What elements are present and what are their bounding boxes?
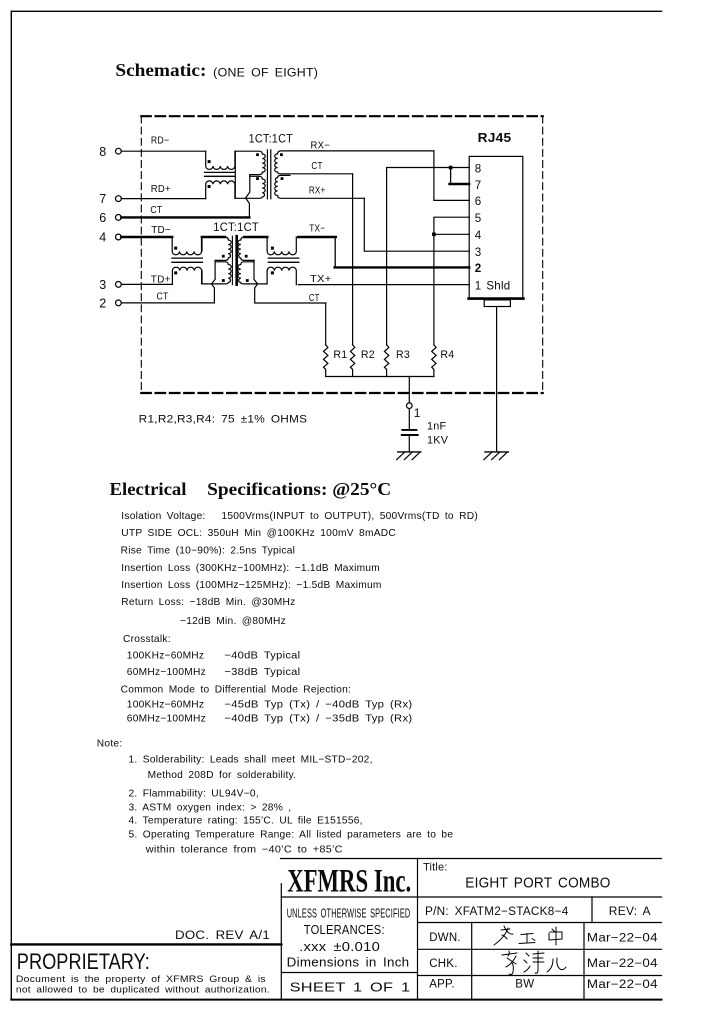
svg-text:7: 7	[99, 192, 106, 206]
transformer T1 secondary bottom section	[275, 175, 365, 198]
svg-text:Mar−22−04: Mar−22−04	[587, 933, 658, 945]
svg-text:Dimensions in Inch: Dimensions in Inch	[287, 955, 410, 969]
svg-text:CT: CT	[311, 161, 322, 172]
transformer T2 primary centre-tap to CT	[212, 260, 216, 302]
svg-text:Specifications: @25°C: Specifications: @25°C	[207, 479, 391, 499]
svg-text:R2: R2	[361, 349, 375, 361]
svg-text:Common Mode to Differential Mo: Common Mode to Differential Mode Rejecti…	[121, 685, 352, 696]
transformer T1 secondary top section	[275, 151, 434, 174]
wire capacitor to ground	[408, 436, 410, 452]
wire RJ45 pin 8 net to R3	[387, 168, 470, 345]
svg-text:1: 1	[475, 280, 482, 293]
svg-text:2: 2	[99, 297, 106, 311]
wire TX CT down to R1	[325, 303, 327, 345]
svg-text:UNLESS OTHERWISE SPECIFIED: UNLESS OTHERWISE SPECIFIED	[287, 907, 411, 921]
svg-text:BW: BW	[515, 979, 534, 991]
wire node 1 to capacitor C1	[408, 409, 410, 430]
transformer T2 label 1CT:1CT	[213, 220, 259, 234]
svg-text:2. Flammability: UL94V−0,: 2. Flammability: UL94V−0,	[129, 789, 259, 800]
svg-text:4. Temperature rating: 155’C.: 4. Temperature rating: 155’C. UL file E1…	[129, 816, 363, 827]
common-mode choke L2 top winding	[172, 237, 201, 255]
common-mode choke L3 core	[268, 258, 299, 262]
wire RX CT down to R2	[352, 174, 354, 345]
label RX-	[311, 141, 331, 152]
wire RJ45 pin 4 stub	[434, 233, 469, 235]
svg-text:6: 6	[99, 211, 106, 225]
common-mode choke L1 top winding	[206, 151, 235, 169]
svg-text:TX+: TX+	[310, 274, 332, 285]
wire TD- from pin 4	[121, 225, 172, 237]
pin 8 terminal	[99, 145, 121, 159]
svg-text:8: 8	[99, 145, 106, 159]
svg-text:XFMRS Inc.: XFMRS Inc.	[287, 863, 411, 899]
junction pins 7-8	[449, 166, 453, 170]
svg-text:REV: A: REV: A	[609, 906, 651, 918]
title block text	[16, 862, 658, 995]
resistor R4	[432, 345, 455, 377]
dashed enclosure box	[141, 116, 542, 393]
svg-text:RX+: RX+	[309, 186, 326, 197]
svg-text:Shld: Shld	[486, 280, 510, 293]
svg-text:4: 4	[475, 229, 482, 242]
svg-text:APP.: APP.	[429, 979, 455, 991]
wire rail to node 1	[408, 377, 410, 403]
node 1 terminal	[407, 403, 421, 420]
wire TD+ from pin 3	[121, 274, 172, 285]
electrical specifications and notes text	[97, 479, 478, 856]
wire RX+ to RJ45 pin 3	[364, 198, 469, 251]
svg-text:RD+: RD+	[151, 184, 171, 195]
svg-text:RD−: RD−	[151, 135, 169, 146]
svg-text:3: 3	[99, 278, 106, 292]
svg-text:60MHz−100MHz: 60MHz−100MHz	[127, 714, 206, 725]
svg-text:1. Solderability: Leads shall: 1. Solderability: Leads shall meet MIL−S…	[129, 755, 373, 766]
common-mode choke L2 bottom winding	[172, 267, 201, 284]
svg-text:P/N: XFATM2−STACK8−4: P/N: XFATM2−STACK8−4	[425, 906, 569, 918]
svg-text:R1: R1	[333, 349, 347, 361]
signature CHK	[502, 951, 566, 975]
pin 4 terminal	[99, 231, 121, 245]
svg-text:DWN.: DWN.	[429, 932, 461, 944]
svg-text:60MHz−100MHz: 60MHz−100MHz	[127, 667, 206, 678]
svg-text:−38dB Typical: −38dB Typical	[224, 667, 300, 678]
svg-text:−45dB Typ (Tx) / −40dB Typ (Rx: −45dB Typ (Tx) / −40dB Typ (Rx)	[224, 700, 412, 711]
transformer T2 secondary bottom section	[238, 262, 267, 284]
common-mode choke L2 core	[172, 258, 203, 262]
svg-text:PROPRIETARY:: PROPRIETARY:	[17, 949, 150, 974]
svg-text:Insertion Loss (300KHz−100MHz): Insertion Loss (300KHz−100MHz): −1.1dB M…	[121, 563, 380, 574]
transformer T1 primary centre-tap to CT	[246, 175, 250, 217]
svg-text:Isolation Voltage: 1500Vrms(: Isolation Voltage: 1500Vrms(INPUT to OUT…	[121, 511, 478, 522]
transformer T2 secondary right verticals	[266, 237, 268, 284]
ground (shield)	[484, 452, 508, 460]
common-mode choke L1 bottom winding	[206, 181, 235, 199]
resistor R2	[350, 345, 375, 377]
svg-text:TD+: TD+	[151, 274, 171, 285]
capacitor C1	[402, 421, 449, 447]
transformer T1 primary top section	[235, 151, 265, 174]
svg-text:CT: CT	[309, 293, 320, 304]
junction pin 4 net	[432, 233, 436, 237]
common-mode choke L1 core	[205, 172, 235, 176]
svg-text:CHK.: CHK.	[429, 958, 457, 970]
transformer T2 primary bottom section	[202, 262, 231, 284]
svg-text:TD−: TD−	[151, 225, 171, 236]
svg-text:−40dB Typ (Tx) / −35dB Typ (Rx: −40dB Typ (Tx) / −35dB Typ (Rx)	[224, 714, 412, 725]
transformer T1 primary bottom section	[235, 176, 265, 198]
svg-text:1: 1	[414, 406, 421, 420]
page border top	[11, 10, 661, 12]
transformer T1 primary vertical link	[234, 151, 236, 198]
svg-text:R4: R4	[440, 349, 454, 361]
svg-text:TX−: TX−	[309, 223, 325, 234]
wire resistor bottom rail	[326, 376, 434, 378]
wire T2 to choke L3	[244, 236, 267, 238]
resistor R3	[384, 345, 410, 377]
svg-text:Mar−22−04: Mar−22−04	[587, 979, 658, 991]
svg-text:TOLERANCES:: TOLERANCES:	[304, 923, 385, 937]
svg-text:4: 4	[99, 231, 106, 245]
RJ45 shield tab	[484, 300, 510, 307]
svg-text:Crosstalk:: Crosstalk:	[123, 634, 171, 645]
svg-text:3. ASTM oxygen index: > 28% ,: 3. ASTM oxygen index: > 28% ,	[129, 803, 292, 814]
pin 6 terminal	[99, 211, 121, 225]
wire RD- from pin 8	[121, 135, 205, 151]
svg-text:Electrical: Electrical	[110, 479, 187, 499]
wire RX- to RJ45 pin 6	[434, 151, 469, 201]
transformer T2 primary left verticals	[201, 237, 203, 284]
svg-text:Document is the property of XF: Document is the property of XFMRS Group …	[16, 973, 266, 984]
signature DWN	[494, 926, 562, 945]
svg-text:1nF: 1nF	[427, 421, 447, 433]
wire CT from pin 2	[121, 292, 214, 303]
RJ45 Shld pin label	[486, 280, 510, 293]
svg-text:Rise Time (10−90%): 2.5ns Typi: Rise Time (10−90%): 2.5ns Typical	[121, 546, 296, 557]
svg-text:6: 6	[475, 195, 482, 208]
svg-text:not allowed to be duplicated w: not allowed to be duplicated without aut…	[16, 983, 270, 994]
wire CT from pin 6	[121, 205, 249, 217]
svg-text:Title:: Title:	[423, 862, 448, 874]
transformer T1 label 1CT:1CT	[249, 131, 293, 145]
wire choke L2 to T2 primary	[202, 236, 225, 238]
ground (capacitor)	[397, 452, 421, 460]
svg-text:100KHz−60MHz: 100KHz−60MHz	[127, 651, 204, 662]
svg-text:DOC. REV A/1: DOC. REV A/1	[175, 928, 270, 942]
svg-text:RJ45: RJ45	[478, 130, 512, 145]
svg-text:Method 208D for solderability.: Method 208D for solderability.	[148, 770, 297, 781]
transformer T2 primary top section	[215, 237, 231, 260]
wire TX+ to RJ45 pin 1	[298, 274, 469, 285]
label RX+	[309, 186, 326, 197]
svg-text:Mar−22−04: Mar−22−04	[587, 958, 658, 970]
svg-text:R1,R2,R3,R4: 75 ±1% OHMS: R1,R2,R3,R4: 75 ±1% OHMS	[139, 414, 308, 426]
svg-text:5: 5	[475, 212, 482, 225]
svg-text:1CT:1CT: 1CT:1CT	[249, 131, 293, 145]
svg-text:SHEET 1 OF 1: SHEET 1 OF 1	[290, 980, 411, 995]
svg-text:RX−: RX−	[311, 141, 331, 152]
resistor value note	[139, 414, 308, 426]
transformer T2 secondary centre-tap to CT	[254, 260, 326, 304]
svg-text:3: 3	[475, 246, 482, 259]
svg-text:1KV: 1KV	[427, 434, 449, 446]
pin 2 terminal	[99, 297, 121, 311]
pin 3 terminal	[99, 278, 121, 292]
transformer T1 core	[267, 150, 270, 199]
svg-text:R3: R3	[396, 349, 410, 361]
RJ45 connector J1	[469, 130, 524, 299]
schematic heading	[115, 60, 318, 80]
svg-text:Return Loss: −18dB Min. @30MHz: Return Loss: −18dB Min. @30MHz	[121, 597, 295, 608]
svg-text:Schematic:: Schematic:	[115, 60, 206, 80]
wire RJ45 pin 5 net	[434, 217, 469, 345]
wire shield to ground	[496, 307, 498, 452]
svg-text:EIGHT PORT COMBO: EIGHT PORT COMBO	[465, 874, 610, 891]
common-mode choke L3 bottom winding	[267, 267, 296, 284]
svg-text:2: 2	[475, 262, 482, 275]
svg-text:−12dB Min. @80MHz: −12dB Min. @80MHz	[180, 616, 286, 627]
svg-text:100KHz−60MHz: 100KHz−60MHz	[127, 700, 204, 711]
svg-text:within tolerance from −40’C to: within tolerance from −40’C to +85’C	[145, 845, 343, 856]
pin 7 terminal	[99, 192, 121, 206]
wire RD+ from pin 7	[121, 184, 205, 199]
svg-text:CT: CT	[157, 292, 169, 303]
svg-text:5. Operating Temperature Range: 5. Operating Temperature Range: All list…	[129, 830, 454, 841]
svg-text:Note:: Note:	[97, 739, 123, 750]
svg-text:CT: CT	[150, 205, 162, 216]
svg-text:1CT:1CT: 1CT:1CT	[213, 220, 259, 234]
title block frame	[11, 859, 661, 1000]
label CT (RX)	[311, 161, 322, 172]
wire jog pin 8 to pin 7	[450, 168, 470, 185]
svg-text:.xxx ±0.010: .xxx ±0.010	[299, 940, 380, 954]
svg-text:7: 7	[475, 179, 482, 192]
svg-text:UTP SIDE OCL: 350uH Min @100KH: UTP SIDE OCL: 350uH Min @100KHz 100mV 8m…	[121, 528, 396, 539]
resistor R1	[324, 345, 348, 377]
svg-text:Insertion Loss (100MHz−125MHz): Insertion Loss (100MHz−125MHz): −1.5dB M…	[121, 580, 381, 591]
svg-text:(ONE OF EIGHT): (ONE OF EIGHT)	[213, 66, 318, 80]
transformer T2 secondary top section	[238, 237, 254, 260]
wire TX- to RJ45 pin 2	[298, 223, 469, 267]
common-mode choke L3 top winding	[267, 237, 296, 255]
svg-text:8: 8	[475, 162, 482, 175]
transformer T2 core	[232, 236, 236, 284]
svg-text:−40dB Typical: −40dB Typical	[224, 651, 300, 662]
page border left	[10, 11, 12, 999]
